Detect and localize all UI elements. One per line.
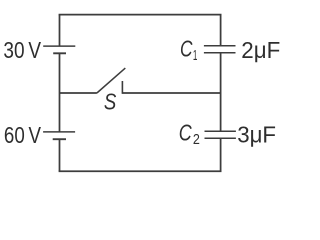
svg-text:3μF: 3μF (237, 121, 276, 147)
switch S right contact tick (121, 81, 123, 94)
svg-text:2: 2 (193, 131, 200, 148)
wire switch left lead (60, 92, 97, 94)
battery V1 30V short plate (53, 52, 66, 54)
wire top (59, 14, 222, 16)
capacitor C2 top plate (205, 130, 236, 132)
wire left middle (59, 53, 61, 132)
svg-text:C: C (180, 36, 193, 62)
svg-text:60 V: 60 V (4, 122, 42, 148)
wire left lower (59, 139, 61, 171)
wire right middle (220, 53, 222, 132)
wire left upper (59, 15, 61, 46)
svg-text:S: S (104, 89, 117, 115)
battery V2 60V long plate (43, 131, 75, 133)
capacitor C1 top plate (204, 45, 236, 47)
wire bottom (59, 170, 222, 172)
switch S blade (97, 68, 125, 93)
capacitor C1 bottom plate (204, 52, 236, 54)
wire right upper (220, 15, 222, 46)
wire right lower (220, 138, 222, 171)
svg-text:2μF: 2μF (241, 37, 280, 63)
wire switch right lead (122, 92, 220, 94)
capacitor C2 bottom plate (205, 137, 236, 139)
svg-text:30 V: 30 V (3, 37, 41, 63)
battery V1 30V long plate (43, 45, 75, 47)
battery V2 60V short plate (53, 138, 66, 140)
svg-text:1: 1 (193, 47, 198, 64)
svg-text:C: C (179, 120, 192, 146)
